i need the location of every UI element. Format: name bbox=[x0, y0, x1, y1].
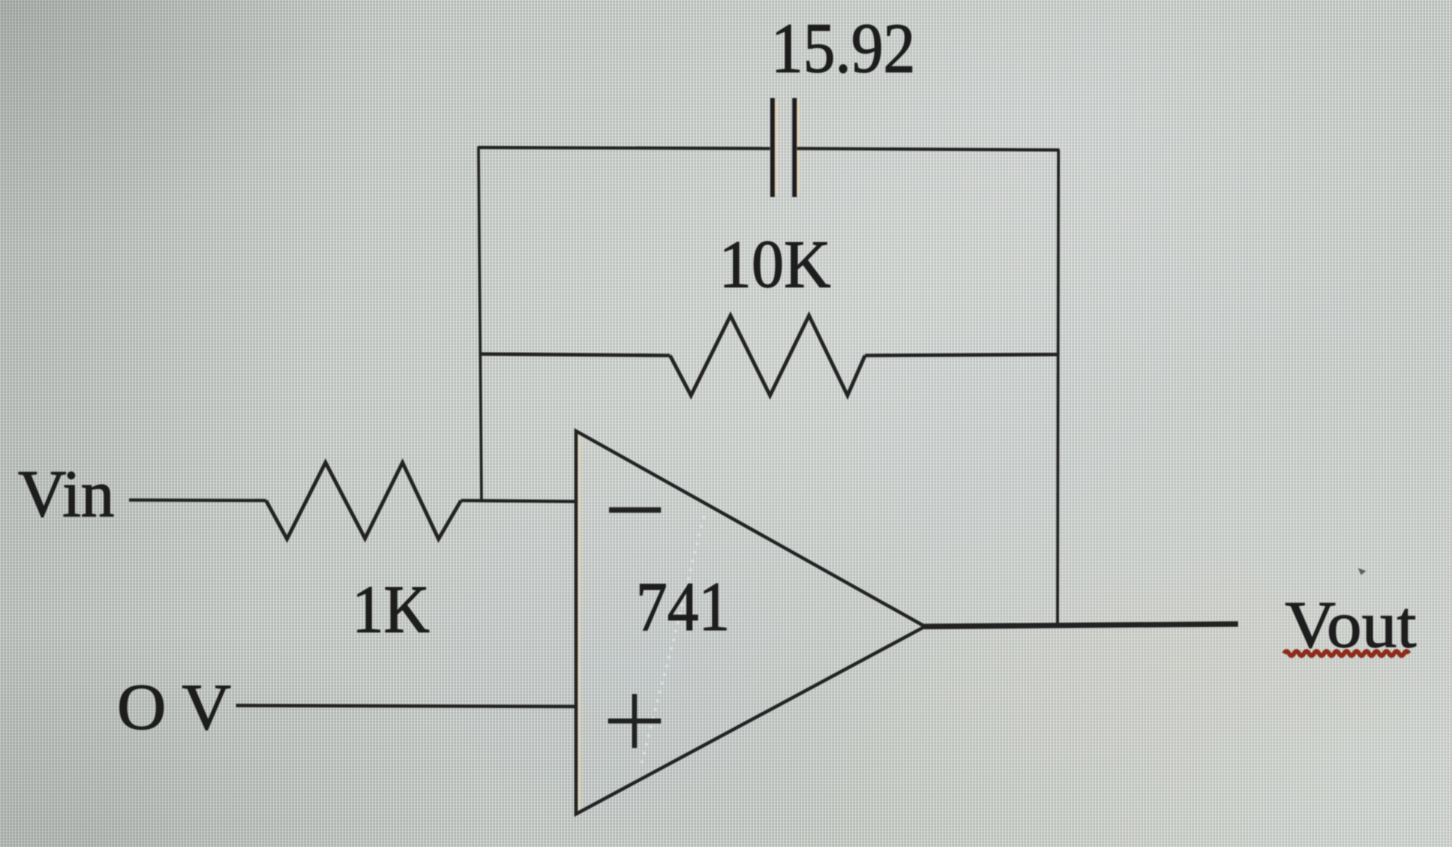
wire: resistor feedback branch, right segment bbox=[865, 355, 1059, 356]
op-amp inverting input minus sign bbox=[609, 507, 661, 513]
photo speck above Vout bbox=[1358, 568, 1366, 575]
capacitor C1 right plate bbox=[792, 98, 797, 197]
capacitor C1 left plate bbox=[770, 98, 775, 197]
svg-text:741: 741 bbox=[636, 569, 730, 646]
svg-text:10K: 10K bbox=[719, 228, 831, 302]
wire: resistor feedback branch, left segment bbox=[479, 354, 670, 356]
resistor R2 10K zigzag bbox=[670, 316, 865, 396]
wire: input resistor to op-amp inverting input bbox=[461, 501, 576, 502]
wire: Vin to input resistor bbox=[129, 498, 266, 502]
svg-text:O V: O V bbox=[117, 671, 231, 744]
photo artifact: faint dotted crease inside op-amp bbox=[641, 516, 704, 766]
wire: 0V to op-amp non-inverting input bbox=[236, 706, 576, 707]
wire: right vertical of feedback loop down to output node bbox=[1058, 150, 1059, 626]
wire: feedback top horizontal, right segment from capacitor bbox=[797, 149, 1060, 151]
resistor R1 1K zigzag bbox=[266, 463, 461, 540]
op-amp non-inverting input plus sign bbox=[608, 719, 661, 724]
spellcheck squiggle under Vout bbox=[1284, 651, 1409, 656]
wire: left vertical of feedback loop down to inverting input node bbox=[479, 147, 482, 502]
wire: feedback top horizontal, left segment to capacitor bbox=[478, 148, 770, 149]
svg-text:1K: 1K bbox=[352, 572, 430, 648]
svg-text:Vin: Vin bbox=[18, 457, 114, 531]
wire: op-amp output to Vout bbox=[924, 624, 1238, 627]
op-amp U1 741 triangle body (with photo colour fringe) bbox=[578, 434, 580, 811]
svg-text:15.92: 15.92 bbox=[771, 9, 915, 88]
